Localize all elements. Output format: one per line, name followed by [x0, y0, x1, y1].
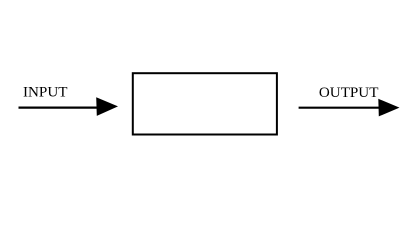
svg-text:INPUT: INPUT	[23, 85, 67, 101]
wire (input arrow shaft)	[19, 106, 101, 108]
wire (output arrow shaft)	[299, 107, 382, 109]
output arrowhead	[378, 99, 399, 117]
input arrowhead	[96, 97, 118, 116]
svg-text:OUTPUT: OUTPUT	[319, 85, 379, 101]
block (process box)	[133, 73, 277, 134]
